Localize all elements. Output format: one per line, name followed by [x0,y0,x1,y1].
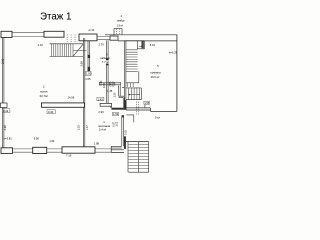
stair mid landing [126,71,139,83]
svg-text:1.55: 1.55 [144,102,149,105]
svg-text:1.9 м²: 1.9 м² [117,24,124,27]
thick pier at entry [124,136,126,149]
window top center [97,37,110,40]
right wing bottom wall [126,108,150,112]
svg-text:h=3.29: h=3.29 [169,51,178,55]
svg-text:5 кл: 5 кл [155,116,160,120]
stair top-center treads [52,44,74,56]
window top-left [12,33,44,37]
svg-text:1.47: 1.47 [86,125,89,130]
top wall outer right [105,34,177,36]
right wing bottom line [150,110,177,112]
svg-text:1.16: 1.16 [38,43,44,47]
svg-text:кл.VII: кл.VII [89,30,95,32]
hall east wall [122,115,124,146]
stair diagonal [73,44,83,57]
svg-text:прихожая: прихожая [98,125,111,128]
svg-text:7.19: 7.19 [66,154,72,158]
svg-text:5.91: 5.91 [150,43,156,47]
boxed 0.42 [2,109,10,113]
boxed 1.5 right [144,101,149,104]
vestibule inner step [127,115,134,123]
boxed 0.40 [47,110,55,114]
svg-text:4.99: 4.99 [103,83,106,88]
stair right treads [126,50,138,72]
stair lower flight treads [129,88,140,100]
boxed 1.52 vestibule [112,112,118,115]
svg-text:кабинет: кабинет [100,56,111,60]
svg-text:62.7м²: 62.7м² [40,94,48,98]
vestibule bottom wall [111,146,122,148]
svg-text:1.52: 1.52 [86,72,92,76]
stair lower flight arrow [130,94,141,96]
svg-text:29.6 м²: 29.6 м² [151,75,160,79]
svg-text:0.40: 0.40 [48,110,54,114]
wall pier top 4 [110,36,118,40]
svg-text:h=3.81: h=3.81 [4,137,13,141]
svg-text:2.93: 2.93 [98,110,104,114]
room3 west wall with jambs [88,41,90,72]
svg-text:14.06: 14.06 [68,95,75,99]
wall pier top 2 [44,31,64,37]
stair lower flight boundary [126,88,141,100]
room3 east wall / hall west wall [107,40,109,103]
svg-text:1.50: 1.50 [49,140,54,143]
svg-text:6.50: 6.50 [34,137,40,141]
wall pier tick [142,41,144,48]
wall pier top 3 [79,34,97,41]
svg-text:3.05: 3.05 [125,130,128,135]
wall right of stair [83,38,85,147]
svg-text:1.02: 1.02 [115,121,118,126]
bottom wall piers and windows [1,148,13,154]
dotted opening right wing [136,102,138,115]
partition wall room2 bottom [42,103,85,107]
tick below box [144,105,146,108]
svg-text:кухня: кухня [40,90,48,94]
svg-text:1.52: 1.52 [113,112,119,116]
central horizontal wall [99,83,120,85]
svg-text:1.55: 1.55 [113,92,116,97]
left wall [2,38,4,149]
stair bottom-right [126,141,149,143]
svg-text:Этаж 1: Этаж 1 [40,12,72,23]
opening dotted [67,35,75,43]
stair top-center boundary [50,44,84,57]
upper hall wall [100,103,111,106]
svg-text:2.98: 2.98 [94,141,100,145]
stair right landing [137,41,144,49]
svg-text:3.98: 3.98 [3,125,7,131]
svg-text:5.4 м²: 5.4 м² [99,127,106,131]
svg-text:1.65: 1.65 [85,77,91,81]
svg-text:1.45: 1.45 [107,89,113,93]
top wall inner right [118,40,177,42]
svg-text:2.20: 2.20 [77,125,80,130]
svg-text:2.70: 2.70 [99,43,105,47]
svg-text:0.99: 0.99 [112,81,115,86]
stair right shaft top [125,40,145,42]
bottom wall right step [111,150,124,153]
right wall [176,35,178,112]
svg-text:тамбур: тамбур [117,20,125,23]
thick T wall vestibule [123,100,126,110]
svg-text:3.08: 3.08 [80,61,84,67]
wall pier top-left [1,31,12,37]
protrusion top [114,29,122,35]
svg-text:комната: комната [151,72,162,75]
stair right arrow [139,45,143,47]
svg-text:7.7 м²: 7.7 м² [102,60,109,64]
svg-text:1.43: 1.43 [98,97,104,101]
wall chain right of hall [119,86,121,97]
boxed 1.52 corridor [85,71,91,75]
stair right shaft west wall [124,41,126,108]
left wall notch [1,103,8,108]
svg-text:5.31: 5.31 [0,58,4,64]
svg-text:0.42: 0.42 [3,109,9,113]
boxed 1.43 [97,97,104,101]
stair mid landing line [73,49,87,51]
